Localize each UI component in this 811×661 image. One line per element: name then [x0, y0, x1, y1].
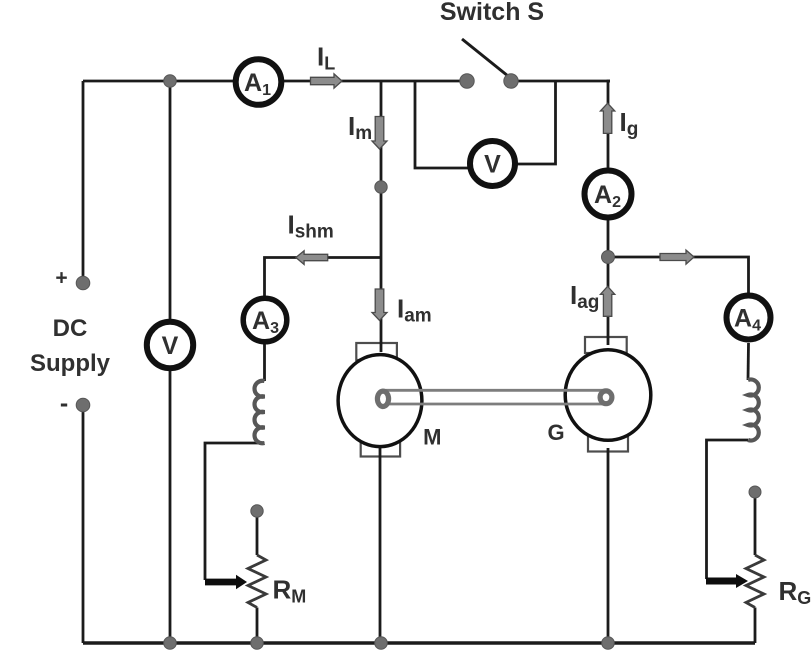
terminal RG top: [749, 486, 761, 498]
terminal RM top: [251, 505, 263, 517]
wire bottom bus: [83, 641, 755, 645]
wire RG top: [754, 496, 757, 555]
wire RM bottom: [256, 608, 259, 644]
ammeter A4: [727, 296, 771, 340]
arrow Ishm: [296, 251, 328, 265]
generator G body: [565, 350, 651, 441]
brush rect G bottom: [588, 436, 628, 452]
svg-text:M: M: [423, 425, 441, 450]
ammeter A1: [236, 59, 282, 105]
wire Ishm branch: [265, 258, 382, 297]
svg-text:V: V: [484, 151, 501, 179]
coil shunt field M: [255, 381, 265, 443]
wire switch-V loop right: [505, 81, 556, 164]
svg-text:G: G: [547, 420, 564, 445]
svg-text:+: +: [55, 267, 67, 290]
rheostat RG zigzag: [746, 555, 764, 608]
ammeter A2: [585, 171, 632, 218]
wire RM top: [256, 515, 259, 555]
brush rect M top: [356, 343, 397, 360]
rheostat RG wiper arrow: [706, 574, 748, 588]
junction dot top bus: [164, 75, 177, 88]
arrow Ig: [600, 103, 614, 133]
svg-text:-: -: [60, 390, 68, 418]
wire voltmeter branch: [169, 81, 172, 643]
wire Ig branch: [608, 81, 610, 257]
junction dot bottom G: [602, 637, 615, 650]
switch contact right: [504, 74, 518, 88]
terminal -: [76, 398, 90, 412]
rheostat RM zigzag: [248, 555, 266, 608]
junction dot A2 node: [602, 251, 615, 264]
wire left vertical lower: [82, 405, 85, 643]
wire G armature top: [607, 257, 610, 345]
svg-text:Supply: Supply: [30, 350, 111, 377]
arrow Iag: [600, 286, 614, 316]
ammeter A3: [243, 298, 287, 342]
terminal +: [76, 276, 90, 290]
wire G coil to RG wiper: [707, 440, 749, 579]
voltmeter V switch loop: [470, 141, 515, 186]
junction dot bottom V: [164, 637, 177, 650]
shaft coupling: [377, 390, 611, 406]
brush rect M bottom: [361, 441, 400, 457]
svg-text:V: V: [162, 332, 179, 360]
wire left vertical upper: [82, 81, 85, 283]
svg-text:Switch S: Switch S: [440, 0, 544, 26]
brush rect G top: [585, 337, 627, 353]
wire M armature bottom: [379, 448, 382, 643]
motor M body: [338, 355, 422, 447]
wire Im branch: [380, 81, 383, 352]
voltmeter V left: [147, 322, 193, 368]
coil shunt field G: [748, 380, 759, 441]
rheostat RM wiper arrow: [205, 575, 247, 589]
arrow IL: [311, 74, 343, 88]
arrow Iam: [372, 289, 387, 320]
wire A4 to coil: [747, 343, 750, 380]
junction dot Im node: [375, 181, 387, 193]
wire G armature bottom: [607, 448, 610, 643]
wire switch-V loop left: [415, 81, 480, 168]
wire top bus: [83, 80, 467, 83]
wire M coil to RM wiper: [205, 443, 265, 580]
wire top bus right of switch: [511, 80, 610, 83]
junction dot bottom M: [375, 637, 388, 650]
arrow to A4: [660, 250, 694, 264]
arrow Im: [372, 117, 387, 150]
wire A3 to coil: [263, 344, 266, 381]
svg-text:DC: DC: [53, 315, 88, 342]
wire RG bottom: [754, 608, 757, 644]
wire branch to A4: [608, 257, 749, 295]
switch contact left: [460, 74, 474, 88]
junction dot bottom RM: [251, 637, 264, 650]
switch S lever: [462, 39, 508, 76]
